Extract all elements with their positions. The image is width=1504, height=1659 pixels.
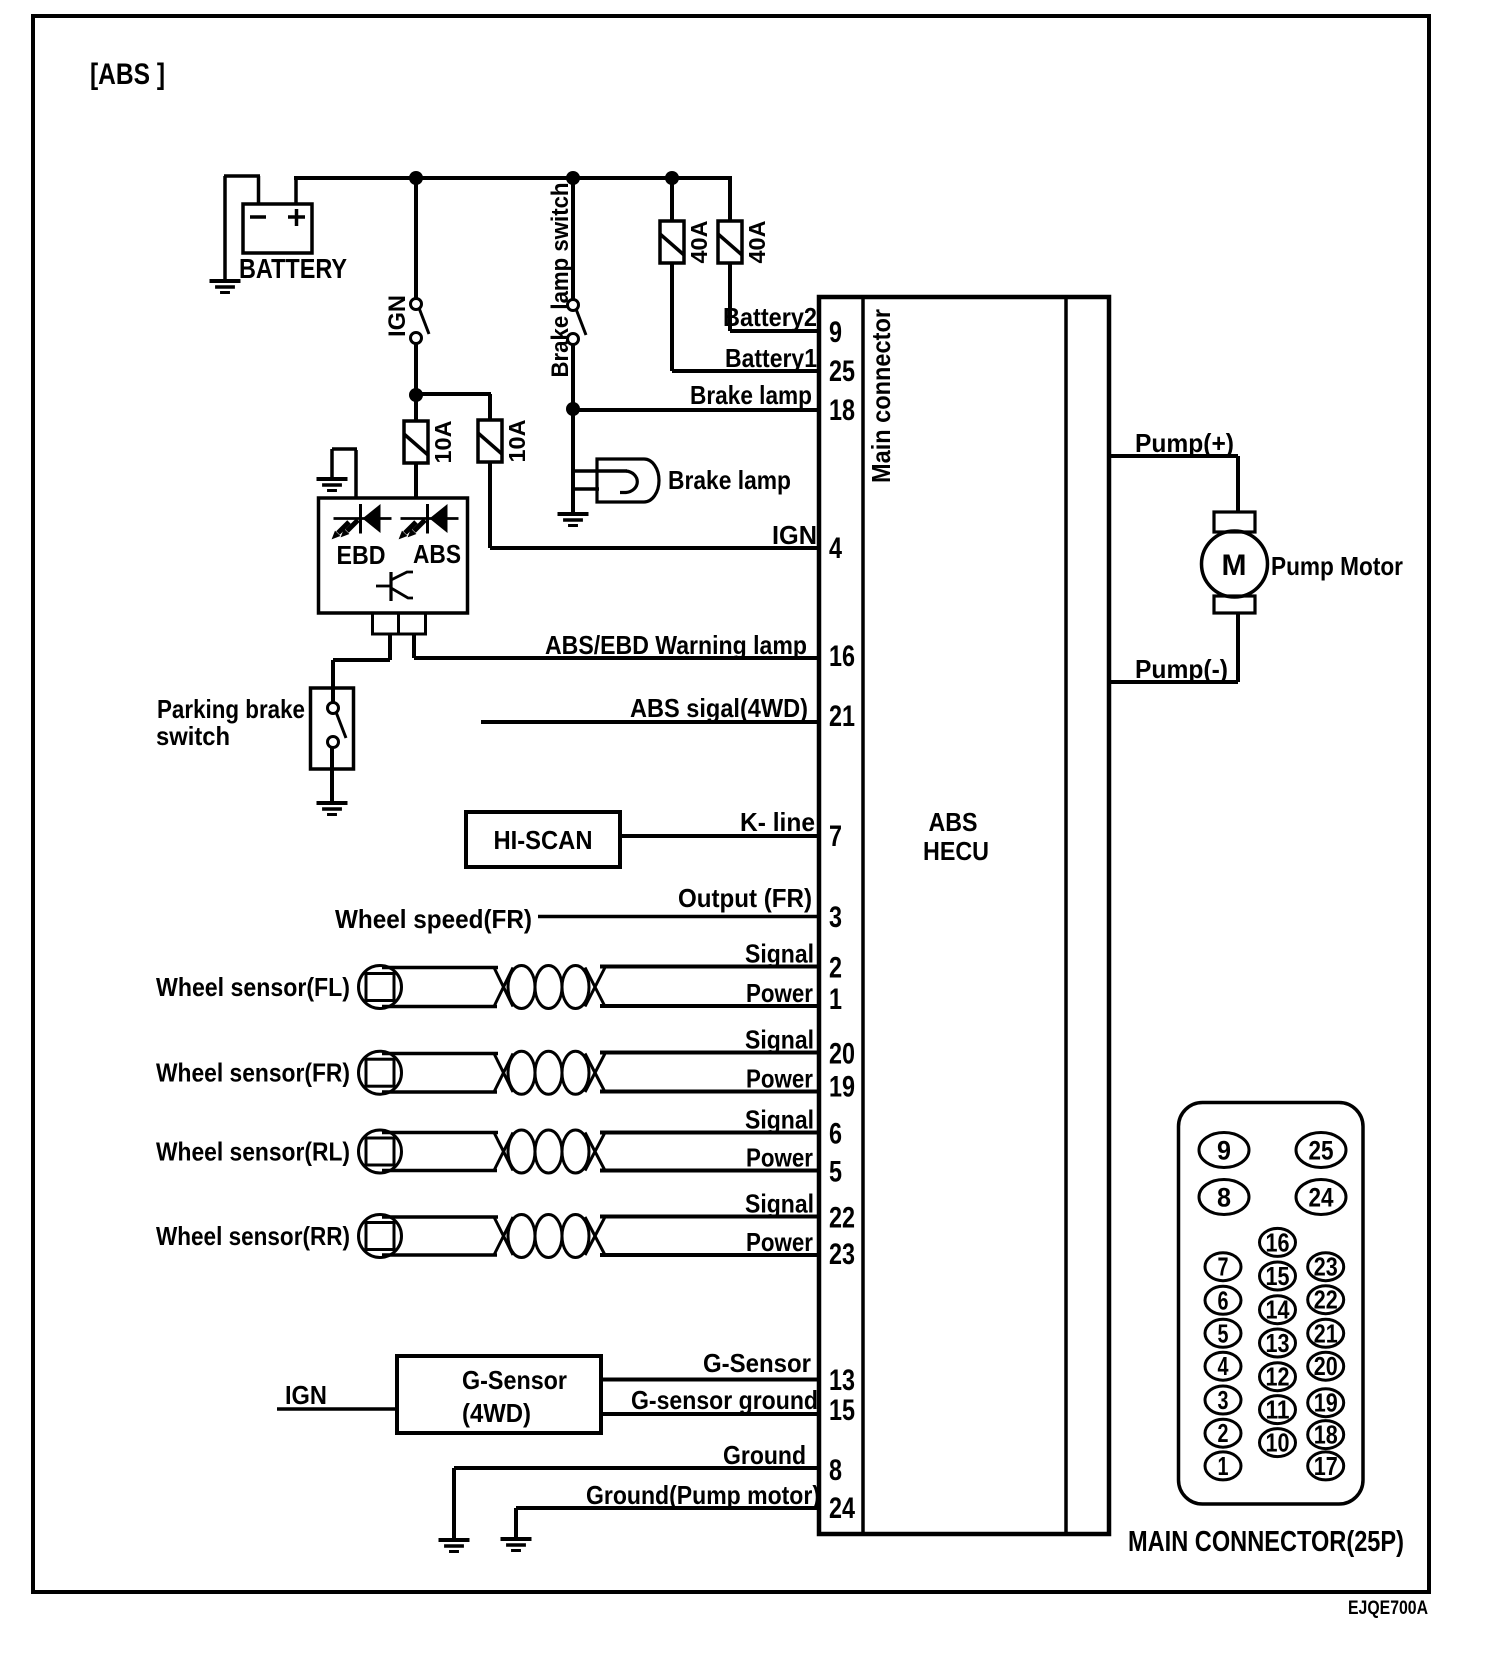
wire FL Signal to pin 2	[600, 965, 819, 969]
wire bus down to brake lamp switch	[571, 178, 575, 300]
G-Sensor (4WD) module	[397, 1356, 601, 1433]
warning lamp cluster box	[319, 498, 468, 613]
svg-text:13: 13	[829, 1364, 855, 1397]
label Main connector	[866, 309, 896, 483]
label Pump(+)	[1135, 428, 1234, 458]
wire 10A fuse 2 down to IGN line	[488, 461, 492, 548]
wire Pump(+) from HECU	[1109, 454, 1238, 458]
svg-text:8: 8	[1217, 1183, 1231, 1213]
label ABS HECU	[923, 807, 989, 866]
title [ABS ]	[90, 58, 165, 91]
wire K-line to HECU pin 7	[620, 834, 819, 838]
svg-text:7: 7	[829, 820, 842, 853]
svg-text:4: 4	[1218, 1351, 1229, 1381]
pin 9	[829, 316, 842, 349]
pin 4	[829, 532, 842, 565]
svg-text:16: 16	[829, 640, 855, 673]
svg-text:7: 7	[1218, 1252, 1229, 1282]
svg-text:40A: 40A	[744, 221, 770, 264]
svg-text:Pump Motor: Pump Motor	[1271, 551, 1403, 581]
label Signal (FL)	[745, 939, 814, 969]
svg-text:BATTERY: BATTERY	[239, 253, 347, 284]
wire FR Signal to pin 20	[600, 1051, 819, 1055]
wire bus drop to 40A fuse 2	[728, 176, 732, 221]
svg-text:Wheel sensor(FR): Wheel sensor(FR)	[156, 1058, 350, 1088]
label IGN (G-sensor feed)	[285, 1380, 327, 1410]
connector pin 14 (small)	[1260, 1295, 1296, 1325]
wire Ground(Pump motor) to HECU pin 24	[516, 1506, 819, 1510]
connector pin 21 (small)	[1308, 1318, 1344, 1348]
junction bus to brake lamp switch	[566, 171, 580, 185]
pin 6	[829, 1118, 842, 1151]
svg-text:22: 22	[1314, 1285, 1338, 1315]
svg-text:HI-SCAN: HI-SCAN	[494, 825, 593, 855]
svg-text:ABS/EBD Warning lamp: ABS/EBD Warning lamp	[545, 630, 807, 660]
svg-text:Wheel sensor(RR): Wheel sensor(RR)	[156, 1221, 350, 1251]
label Wheel speed(FR)	[335, 904, 532, 934]
label G-sensor ground	[631, 1385, 818, 1415]
label Ground	[723, 1440, 806, 1470]
pin 20	[829, 1038, 855, 1071]
connector pin 2 (small)	[1205, 1418, 1241, 1448]
pin 25	[829, 355, 855, 388]
LED ABS warning lamp	[399, 504, 459, 539]
wire drop to 40A fuse 1	[670, 178, 674, 221]
label 10A for fuse F4	[504, 420, 530, 463]
label ABS	[413, 539, 461, 569]
svg-text:ABS: ABS	[413, 539, 461, 569]
svg-text:Power: Power	[746, 1143, 813, 1173]
wire Battery1 to HECU pin 25	[672, 369, 819, 373]
svg-text:18: 18	[1314, 1420, 1338, 1450]
connector pin 20 (small)	[1308, 1351, 1344, 1381]
wire left pin across to parking brake	[333, 658, 390, 662]
connector pin 11 (small)	[1260, 1395, 1296, 1425]
twisted pair RL loops	[508, 1130, 605, 1173]
connector pin 12 (small)	[1260, 1362, 1296, 1392]
wire down to parking brake switch	[331, 660, 335, 704]
battery	[243, 204, 312, 253]
svg-text:6: 6	[1218, 1285, 1229, 1315]
pin 8	[829, 1454, 842, 1487]
label EJQE700A	[1348, 1598, 1428, 1619]
svg-text:G-Sensor: G-Sensor	[703, 1348, 811, 1378]
label Wheel sensor(RL)	[156, 1137, 350, 1167]
wire battery positive terminal riser	[294, 178, 298, 205]
pin 19	[829, 1071, 855, 1104]
svg-text:15: 15	[829, 1394, 855, 1427]
label IGN (net)	[772, 520, 817, 550]
junction bus to 40A fuse 1	[665, 171, 679, 185]
ground pump motor ground G6	[501, 1539, 532, 1551]
label Output (FR)	[678, 883, 812, 913]
label Power (FL)	[746, 978, 813, 1008]
wire junction to 10A fuse 1	[414, 395, 418, 422]
wire RR Power to pin 23	[600, 1253, 819, 1257]
label Power (RR)	[746, 1227, 813, 1257]
label Parking brake switch	[156, 694, 305, 751]
connector pin 9 (large)	[1199, 1133, 1249, 1168]
svg-text:IGN: IGN	[285, 1380, 327, 1410]
svg-text:K- line: K- line	[740, 807, 815, 837]
svg-text:22: 22	[829, 1202, 855, 1235]
svg-text:HECU: HECU	[923, 836, 989, 866]
wire battery negative terminal riser	[257, 176, 261, 205]
switch contacts parking brake switch contacts	[328, 703, 347, 748]
label Pump(-)	[1135, 654, 1228, 684]
wire bus down to IGN switch	[414, 178, 418, 299]
svg-text:Power: Power	[746, 1064, 813, 1094]
svg-text:IGN: IGN	[772, 520, 817, 550]
wire Ground(Pump motor) drop	[514, 1508, 518, 1539]
junction brake lamp node	[566, 402, 580, 416]
label Signal (FR)	[745, 1025, 814, 1055]
label Signal (RL)	[745, 1105, 814, 1135]
svg-text:23: 23	[1314, 1252, 1338, 1282]
svg-text:Brake lamp switch: Brake lamp switch	[547, 183, 574, 378]
fuse F2 40A	[718, 221, 742, 263]
svg-text:Wheel sensor(RL): Wheel sensor(RL)	[156, 1137, 350, 1167]
label Signal (RR)	[745, 1189, 814, 1219]
wire warning lamp ground stub right	[354, 450, 358, 499]
connector pin 1 (small)	[1205, 1451, 1241, 1481]
svg-text:5: 5	[829, 1156, 842, 1189]
svg-text:4: 4	[829, 532, 842, 565]
svg-text:13: 13	[1266, 1328, 1290, 1358]
svg-text:11: 11	[1266, 1395, 1290, 1425]
wire branch to 10A fuse 2	[414, 392, 491, 396]
label Power (RL)	[746, 1143, 813, 1173]
label Ground(Pump motor)	[586, 1480, 820, 1510]
label MAIN CONNECTOR(25P)	[1128, 1526, 1404, 1558]
ground parking brake ground G4	[317, 803, 348, 815]
pin 7	[829, 820, 842, 853]
svg-text:21: 21	[829, 700, 855, 733]
label Wheel sensor(FR)	[156, 1058, 350, 1088]
wire Pump(-) to HECU	[1109, 680, 1238, 684]
wire Ground drop	[452, 1468, 456, 1540]
connector pin 24 (large)	[1296, 1180, 1346, 1215]
svg-text:switch: switch	[156, 721, 230, 751]
wire Brake lamp to HECU pin 18	[573, 408, 819, 412]
pin 13	[829, 1364, 855, 1397]
svg-text:IGN: IGN	[384, 295, 411, 337]
svg-text:Power: Power	[746, 1227, 813, 1257]
wire warning lamp ground stub top	[332, 447, 357, 451]
connector pin 6 (small)	[1205, 1285, 1241, 1315]
ground brake lamp ground G2	[558, 514, 589, 526]
wire 40A fuse 1 down	[670, 263, 674, 371]
wire FR Power to pin 19	[600, 1090, 819, 1094]
twisted pair RR loops	[508, 1215, 605, 1258]
wire twisted pair RR left section	[382, 1217, 513, 1255]
label G-Sensor (net)	[703, 1348, 811, 1378]
svg-text:Parking brake: Parking brake	[157, 694, 305, 724]
svg-text:20: 20	[829, 1038, 855, 1071]
wire battery negative down to ground	[223, 176, 227, 281]
pin 21	[829, 700, 855, 733]
wire junction down to brake lamp bulb	[571, 409, 575, 471]
label IGN (switch)	[384, 295, 411, 337]
wire IGN to HECU pin 4	[490, 546, 819, 550]
wheel sensor FR	[359, 1051, 402, 1094]
svg-text:G-Sensor: G-Sensor	[462, 1365, 567, 1395]
wire brake lamp bulb return stub	[571, 487, 599, 491]
junction IGN fuse split	[409, 388, 423, 402]
pin 22	[829, 1202, 855, 1235]
fuse F4 10A	[478, 420, 502, 462]
svg-text:25: 25	[1309, 1136, 1334, 1166]
pin 23	[829, 1238, 855, 1271]
twisted pair FR loops	[508, 1051, 605, 1094]
connector pin 3 (small)	[1205, 1385, 1241, 1415]
svg-text:MAIN CONNECTOR(25P): MAIN CONNECTOR(25P)	[1128, 1526, 1404, 1558]
label K- line	[740, 807, 815, 837]
svg-text:Brake lamp: Brake lamp	[668, 465, 791, 495]
wire bulb node down to ground	[571, 471, 575, 514]
wire RL Signal to pin 6	[600, 1131, 819, 1135]
connector pin 23 (small)	[1308, 1252, 1344, 1282]
pin 2	[829, 952, 842, 985]
label Wheel sensor(RR)	[156, 1221, 350, 1251]
svg-text:10: 10	[1266, 1428, 1290, 1458]
svg-text:Signal: Signal	[745, 1189, 814, 1219]
svg-text:Ground(Pump motor): Ground(Pump motor)	[586, 1480, 820, 1510]
label Battery1	[725, 343, 817, 373]
pin 1	[829, 983, 842, 1016]
connector pin 8 (large)	[1199, 1180, 1249, 1215]
warning lamp connector pins	[373, 613, 426, 634]
wheel sensor FL	[359, 966, 402, 1009]
pin 15	[829, 1394, 855, 1427]
wire 10A fuse 1 to warning lamp box	[414, 463, 418, 499]
wire twisted pair FR left section	[382, 1054, 513, 1093]
wire twisted pair FL left section	[382, 968, 513, 1007]
svg-text:Wheel speed(FR): Wheel speed(FR)	[335, 904, 532, 934]
wire 40A fuse 2 down	[728, 263, 732, 331]
label Battery2	[723, 302, 817, 332]
wire ABS/EBD Warning lamp to HECU pin 16	[414, 656, 819, 660]
connector pin 13 (small)	[1260, 1328, 1296, 1358]
svg-text:24: 24	[829, 1492, 855, 1525]
label Brake lamp (net)	[690, 380, 812, 410]
wire warning lamp ground stub down	[330, 449, 334, 479]
wire G-Sensor signal to HECU pin 13	[601, 1378, 819, 1382]
svg-text:23: 23	[829, 1238, 855, 1271]
svg-text:Battery1: Battery1	[725, 343, 817, 373]
svg-text:25: 25	[829, 355, 855, 388]
main connector 25P outline	[1179, 1103, 1364, 1505]
switch contacts brake lamp switch	[568, 300, 587, 345]
brake lamp bulb	[597, 459, 659, 502]
label EBD	[337, 540, 386, 570]
connector pin 25 (large)	[1296, 1133, 1346, 1168]
svg-text:14: 14	[1266, 1295, 1290, 1325]
wheel sensor RL	[359, 1130, 402, 1173]
ground warning lamp ground G3	[317, 479, 348, 491]
connector pin 19 (small)	[1308, 1388, 1344, 1418]
label Pump Motor	[1271, 551, 1403, 581]
svg-text:ABS: ABS	[929, 807, 978, 837]
svg-text:Brake lamp: Brake lamp	[690, 380, 812, 410]
connector pin 18 (small)	[1308, 1420, 1344, 1450]
svg-text:Signal: Signal	[745, 1025, 814, 1055]
svg-text:3: 3	[829, 901, 842, 934]
svg-text:1: 1	[829, 983, 842, 1016]
wire IGN feed to G-sensor	[277, 1407, 397, 1411]
switch contacts IGN switch	[411, 299, 430, 344]
svg-text:Ground: Ground	[723, 1440, 806, 1470]
wire Output (FR) to HECU pin 3	[538, 915, 819, 919]
LED EBD warning lamp	[332, 504, 392, 539]
connector pin 7 (small)	[1205, 1252, 1241, 1282]
svg-text:G-sensor ground: G-sensor ground	[631, 1385, 818, 1415]
svg-text:2: 2	[829, 952, 842, 985]
label 40A for fuse F1	[686, 221, 712, 264]
wire Ground to HECU pin 8	[454, 1466, 819, 1470]
svg-text:21: 21	[1314, 1318, 1338, 1348]
label 40A for fuse F2	[744, 221, 770, 264]
svg-text:18: 18	[829, 394, 855, 427]
wire down to 10A fuse 2	[488, 394, 492, 421]
pin 18	[829, 394, 855, 427]
ground battery ground G1	[210, 281, 241, 293]
svg-text:8: 8	[829, 1454, 842, 1487]
svg-text:17: 17	[1314, 1451, 1338, 1481]
svg-text:Wheel sensor(FL): Wheel sensor(FL)	[156, 972, 350, 1002]
wire feed into brake lamp bulb filament	[571, 469, 627, 473]
svg-text:19: 19	[1314, 1388, 1338, 1418]
wire Battery2 to HECU pin 9	[730, 329, 819, 333]
label Wheel sensor(FL)	[156, 972, 350, 1002]
HI-SCAN tool	[466, 812, 620, 867]
wire Pump(+) drop to motor	[1236, 456, 1240, 513]
ABS HECU unit U1	[819, 297, 1109, 1534]
svg-text:EBD: EBD	[337, 540, 386, 570]
svg-text:3: 3	[1218, 1385, 1229, 1415]
label Brake lamp (bulb)	[668, 465, 791, 495]
twisted pair FL loops	[508, 966, 605, 1009]
wire RL Power to pin 5	[600, 1169, 819, 1173]
fuse F1 40A	[660, 221, 684, 263]
svg-text:M: M	[1222, 549, 1247, 582]
wire FL Power to pin 1	[600, 1004, 819, 1008]
svg-text:Signal: Signal	[745, 1105, 814, 1135]
svg-text:Output (FR): Output (FR)	[678, 883, 812, 913]
wire battery negative stub top	[224, 174, 260, 178]
wire warning lamp left pin down	[388, 634, 392, 660]
svg-text:Pump(+): Pump(+)	[1135, 428, 1234, 458]
svg-text:12: 12	[1266, 1362, 1290, 1392]
wire twisted pair RL left section	[382, 1133, 513, 1171]
svg-text:Battery2: Battery2	[723, 302, 817, 332]
wire IGN switch to junction	[414, 343, 418, 395]
connector pin 15 (small)	[1260, 1261, 1296, 1291]
svg-text:Pump(-): Pump(-)	[1135, 654, 1228, 684]
svg-text:16: 16	[1266, 1227, 1290, 1257]
svg-text:40A: 40A	[686, 221, 712, 264]
svg-text:9: 9	[829, 316, 842, 349]
wheel sensor RR	[359, 1215, 402, 1258]
connector pin 10 (small)	[1260, 1428, 1296, 1458]
pump motor M1	[1202, 512, 1268, 613]
svg-text:Signal: Signal	[745, 939, 814, 969]
wire brake lamp switch to junction	[571, 344, 575, 410]
pin 16	[829, 640, 855, 673]
wire motor to Pump(-)	[1236, 613, 1240, 682]
svg-text:10A: 10A	[430, 421, 456, 464]
svg-text:20: 20	[1314, 1351, 1338, 1381]
connector pin 22 (small)	[1308, 1285, 1344, 1315]
pin 24	[829, 1492, 855, 1525]
fuse F3 10A	[404, 421, 428, 463]
wire G-sensor ground to HECU pin 15	[601, 1412, 819, 1416]
svg-text:Power: Power	[746, 978, 813, 1008]
connector pin 4 (small)	[1205, 1351, 1241, 1381]
label BATTERY	[239, 253, 347, 284]
pin 5	[829, 1156, 842, 1189]
svg-text:ABS sigal(4WD): ABS sigal(4WD)	[630, 693, 808, 723]
svg-text:1: 1	[1218, 1451, 1229, 1481]
svg-text:(4WD): (4WD)	[462, 1398, 531, 1428]
wire warning lamp right pin down	[412, 634, 416, 658]
wire RR Signal to pin 22	[600, 1215, 819, 1219]
parking brake switch	[311, 688, 354, 769]
connector pin 5 (small)	[1205, 1318, 1241, 1348]
svg-text:9: 9	[1217, 1136, 1231, 1166]
connector pin 16 (small)	[1260, 1227, 1296, 1257]
svg-text:24: 24	[1309, 1183, 1334, 1213]
label 10A for fuse F3	[430, 421, 456, 464]
label ABS/EBD Warning lamp	[545, 630, 807, 660]
transistor symbol in warning lamp box	[376, 572, 413, 601]
svg-text:[ABS ]: [ABS ]	[90, 58, 165, 91]
connector pin 17 (small)	[1308, 1451, 1344, 1481]
ground HECU ground G5	[439, 1540, 470, 1552]
pin 3	[829, 901, 842, 934]
svg-text:Main connector: Main connector	[866, 309, 896, 483]
svg-text:15: 15	[1266, 1261, 1290, 1291]
svg-text:5: 5	[1218, 1318, 1229, 1348]
label ABS sigal(4WD)	[630, 693, 808, 723]
label Brake lamp switch	[547, 183, 574, 378]
svg-text:2: 2	[1218, 1418, 1229, 1448]
junction bus to IGN switch	[409, 171, 423, 185]
svg-text:10A: 10A	[504, 420, 530, 463]
svg-text:EJQE700A: EJQE700A	[1348, 1598, 1428, 1619]
svg-text:6: 6	[829, 1118, 842, 1151]
label Power (FR)	[746, 1064, 813, 1094]
wire parking brake switch to ground	[330, 747, 334, 803]
wire ABS sigal(4WD) to HECU pin 21	[481, 720, 819, 724]
wire B+ bus top horizontal	[294, 176, 730, 180]
svg-text:19: 19	[829, 1071, 855, 1104]
